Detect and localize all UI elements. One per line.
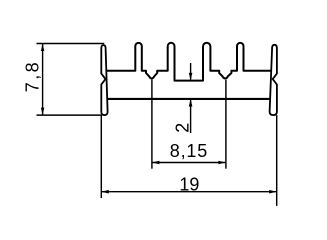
dimension 2 upper shaft [190, 63, 192, 80]
svg-text:2: 2 [172, 123, 192, 133]
arrow 19 right [269, 190, 277, 194]
svg-text:19: 19 [179, 175, 199, 195]
extension line 8,15 right [225, 80, 227, 169]
profile bottom edge [107, 98, 272, 100]
dimension 2 lower shaft [190, 99, 192, 133]
arrow 19 left [101, 190, 109, 194]
arrow 7,8 up [41, 44, 44, 52]
right wall leg with cap and notch [270, 45, 277, 115]
extension line 19 right [276, 115, 278, 206]
dimension line 19 [101, 191, 276, 193]
arrow 7,8 down [41, 108, 44, 116]
dimension line 7,8 [42, 44, 44, 115]
svg-text:7,8: 7,8 [22, 60, 42, 92]
extension line 8,15 left [151, 80, 153, 169]
heatsink profile: fins and channel floors [107, 43, 272, 81]
arrow 2 down [189, 73, 193, 81]
extension line 7,8 bottom [37, 114, 103, 116]
left wall leg with cap and notch [101, 45, 107, 115]
svg-text:8,15: 8,15 [170, 141, 208, 161]
dimension line 8,15 [152, 162, 226, 164]
extension line 7,8 top [37, 43, 105, 45]
arrow 8,15 right [218, 161, 226, 165]
extension line 19 left [100, 115, 102, 198]
arrow 8,15 left [152, 161, 160, 165]
arrow 2 up [189, 99, 193, 107]
